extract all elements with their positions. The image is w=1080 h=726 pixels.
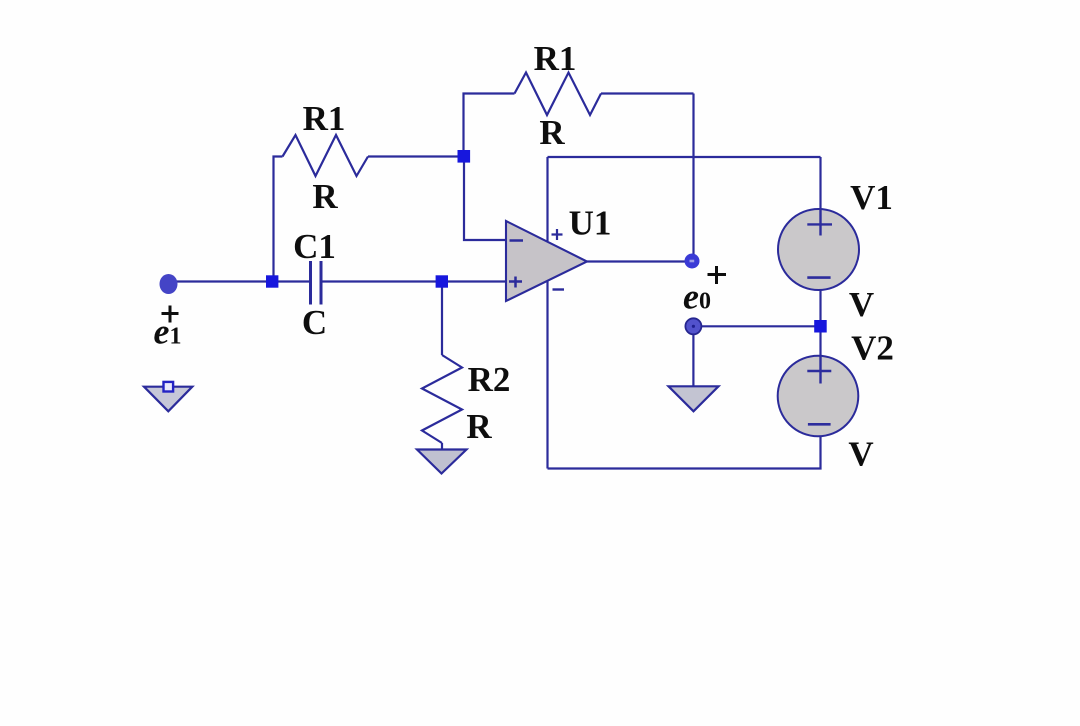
ground below R2 [417,450,467,474]
op-amp U1 triangle [506,221,587,301]
wire J4 to V2 top [819,331,821,357]
svg-text:V: V [848,435,873,474]
wire +V rail to V1 top [548,156,821,158]
wire feedback down to e0 node [692,94,694,261]
wire op-amp output to e0 node [587,260,689,262]
wire R1 top to feedback corner [601,92,694,94]
junction J2 [436,275,448,287]
svg-text:C: C [302,303,327,342]
junction J4 [814,320,827,333]
wire J3 down to op-amp - input [464,156,506,240]
junction J1 [266,275,278,287]
op-amp -V supply mark [553,288,565,290]
wire R2 to ground [441,443,443,450]
svg-text:U1: U1 [569,204,612,243]
wire e1 to J1 to C1 left plate [169,280,311,282]
svg-text:e1: e1 [154,312,182,352]
op-amp - input mark [510,239,524,242]
voltage source V1 [778,209,859,290]
svg-text:R: R [466,407,492,446]
ground below e1 (floating pin square) [144,382,192,411]
junction J3 [458,150,471,163]
svg-text:e0: e0 [683,277,711,317]
svg-text:V2: V2 [851,329,894,368]
node e1 [160,274,178,294]
wire R1 to J3 [368,155,464,157]
op-amp +V supply mark [552,229,563,240]
wire -V rail to V2 bottom [548,437,821,469]
wire op-amp -V pin down [546,280,548,468]
wire rail down to V1 top [819,157,821,210]
wire C1 right plate to J2 [321,280,442,282]
svg-text:R2: R2 [468,360,511,399]
node e0 (output) [685,254,700,269]
capacitor C1 plates [309,261,312,305]
label + at e0 [708,266,727,284]
wire V1 bottom to J4 [819,290,821,322]
label + at e1 [162,306,179,323]
svg-text:R1: R1 [303,99,346,138]
wire J2 to op-amp + input [442,280,506,282]
resistor R1 zigzag (left) [283,135,369,176]
reference node dot [685,318,701,334]
svg-text:V1: V1 [850,178,893,217]
resistor R1 zigzag (top) [515,73,602,116]
op-amp + input mark [509,277,522,288]
svg-text:R: R [539,113,565,152]
wire e0 reference dot down to ground [692,330,694,387]
ground below e0 reference dot [669,386,719,411]
svg-text:V: V [849,285,874,324]
wire J3 up and right to R1 top [464,94,515,157]
wire reference dot to J4 [693,325,815,327]
wire op-amp +V pin up [546,157,548,241]
svg-text:C1: C1 [293,227,336,266]
svg-text:R: R [312,177,338,216]
resistor R2 zigzag [422,355,462,443]
voltage source V2 [778,356,859,437]
wire J2 down to R2 [441,282,443,356]
svg-text:R1: R1 [534,39,577,78]
wire J1 up to R1 [274,157,283,282]
